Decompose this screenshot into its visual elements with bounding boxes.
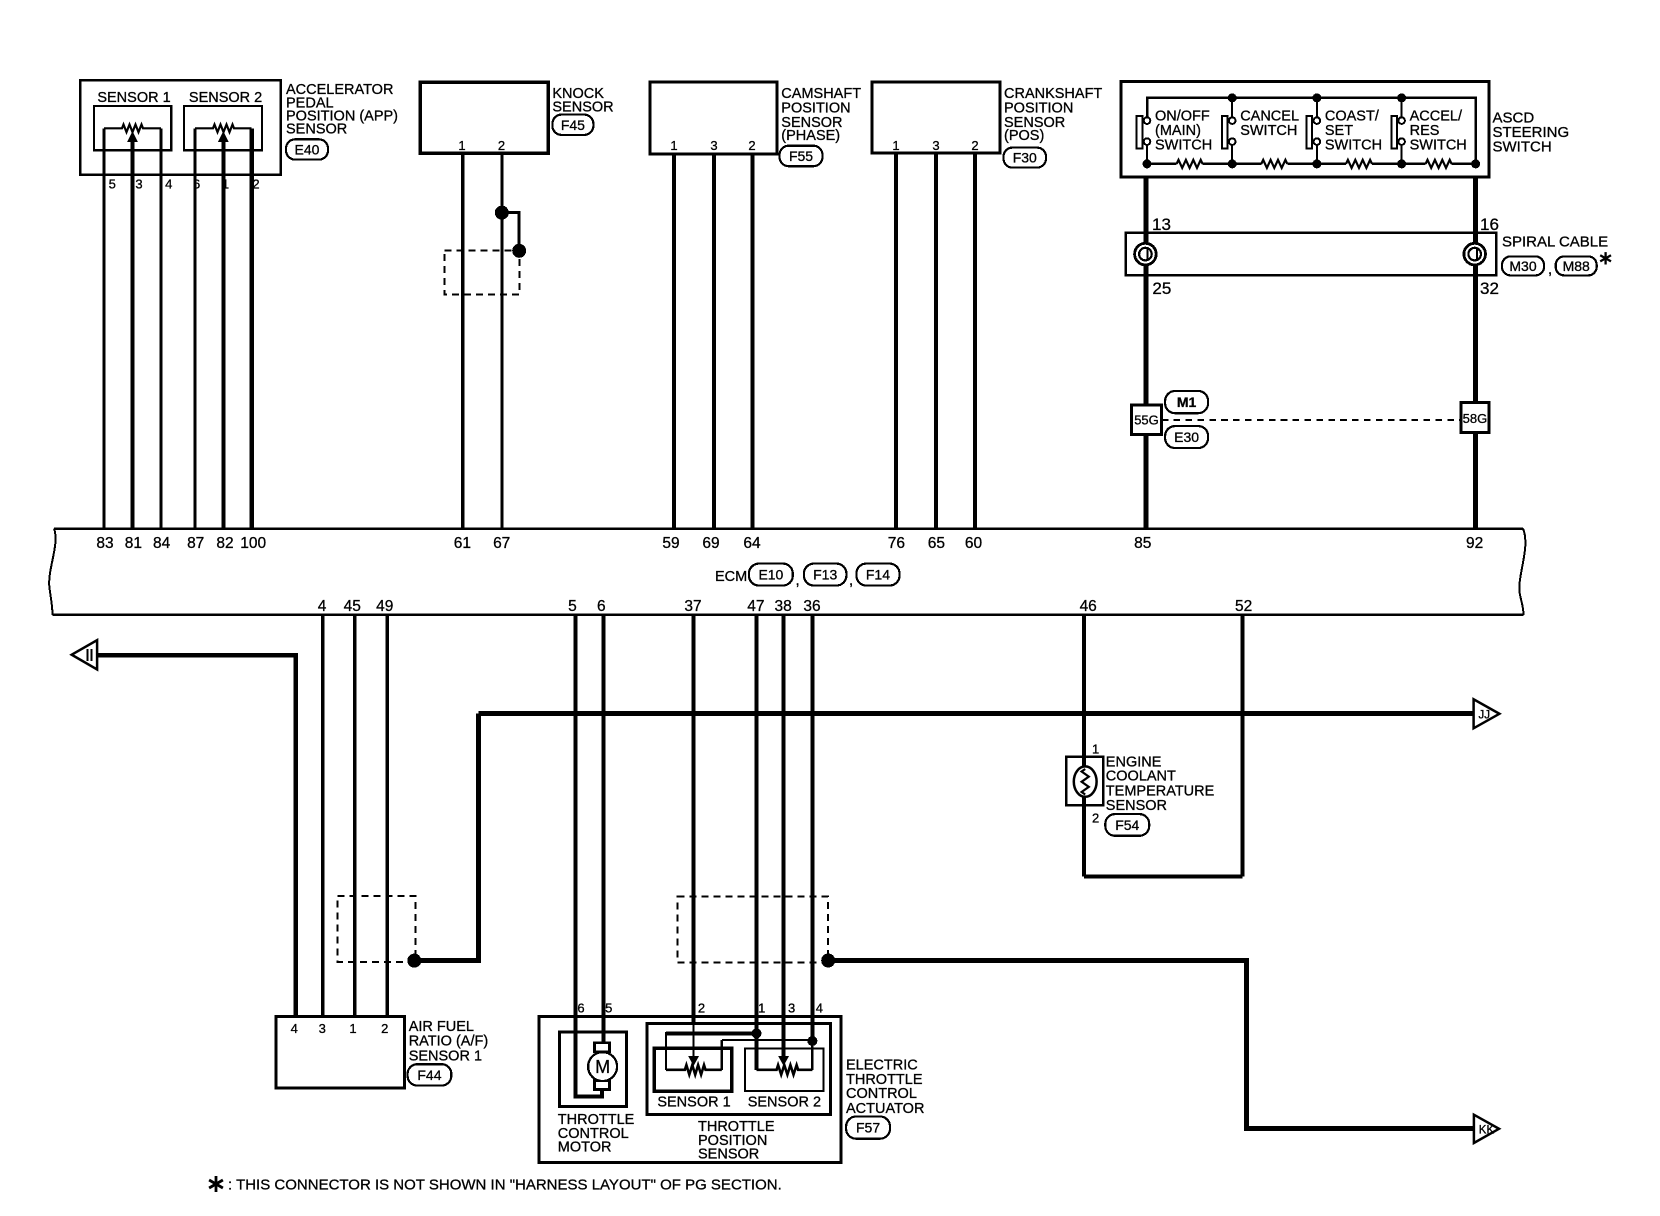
asterisk footnote mark near M88 xyxy=(1604,252,1606,264)
svg-text:47: 47 xyxy=(747,598,764,615)
junction dot bottom bus 5 xyxy=(1471,159,1480,168)
svg-text:61: 61 xyxy=(454,535,471,552)
wire ECM 45 to A/F pin 1 xyxy=(353,615,357,1017)
accelerator pedal position sensor E40 box xyxy=(80,80,281,175)
wire loop to ECM 52 xyxy=(1241,615,1245,876)
ECM band bottom line xyxy=(53,614,1524,617)
switch contact bottom circle COAST/ xyxy=(1314,138,1321,145)
svg-text:13: 13 xyxy=(1152,215,1171,234)
switch plate COAST/ xyxy=(1307,116,1313,149)
wire ECM 37 to TPS sensor1 wiper xyxy=(692,615,696,1024)
svg-text:4: 4 xyxy=(816,1001,823,1016)
svg-text:2: 2 xyxy=(1092,811,1099,826)
svg-text:38: 38 xyxy=(774,598,791,615)
svg-text:1: 1 xyxy=(670,138,677,153)
connector F30 xyxy=(1004,148,1047,168)
svg-text:84: 84 xyxy=(153,535,171,552)
svg-text:2: 2 xyxy=(498,138,505,153)
svg-text:87: 87 xyxy=(187,535,204,552)
wire crankshaft pin2 to ECM 60 xyxy=(973,153,977,529)
svg-text:SWITCH: SWITCH xyxy=(1325,138,1382,154)
switch contact top circle COAST/ xyxy=(1314,117,1321,124)
TPS sensor1 resistor xyxy=(666,1065,722,1075)
wire ECM 36 to TPS junction xyxy=(810,615,814,1041)
junction dot bottom bus 4 xyxy=(1397,159,1406,168)
wire ECM 49 to A/F pin 2 xyxy=(385,615,389,1017)
switch contact top circle ON/OFF xyxy=(1144,117,1151,124)
svg-text:32: 32 xyxy=(1480,279,1499,298)
junction dot bottom bus 2 xyxy=(1228,159,1237,168)
wire ASCD to spiral cable pin 16 xyxy=(1473,177,1478,528)
switch contact bottom circle ACCEL/ xyxy=(1398,138,1405,145)
wire APP pin6 to ECM 87 xyxy=(194,128,197,528)
svg-text:60: 60 xyxy=(965,535,983,552)
svg-text:76: 76 xyxy=(888,535,905,552)
wire camshaft pin3 to ECM 69 xyxy=(712,154,716,529)
spiral cable box xyxy=(1126,233,1496,276)
wire shield bus to page connector JJ xyxy=(479,711,1474,716)
svg-text:,: , xyxy=(849,572,853,589)
connector F57 xyxy=(846,1117,890,1139)
ECM band right torn edge xyxy=(1519,529,1525,615)
svg-text:3: 3 xyxy=(135,176,142,191)
connector E10 xyxy=(749,564,793,586)
ECT loop bottom wire xyxy=(1084,874,1242,878)
wire APP pin3 wiper to ECM 81 xyxy=(131,141,135,529)
svg-text:E10: E10 xyxy=(758,567,783,583)
TPS sensor2 resistor xyxy=(757,1065,813,1075)
connector E40 xyxy=(286,139,328,159)
svg-text:SENSOR: SENSOR xyxy=(698,1147,759,1163)
svg-text:3: 3 xyxy=(319,1021,326,1036)
throttle position sensor box xyxy=(647,1023,831,1114)
svg-text:,: , xyxy=(796,572,800,589)
page connector arrow JJ xyxy=(1474,699,1500,728)
svg-text:TEMPERATURE: TEMPERATURE xyxy=(1106,783,1215,799)
connector F55 xyxy=(780,146,823,167)
svg-text:AIR FUEL: AIR FUEL xyxy=(409,1019,474,1035)
switch contact top circle CANCEL xyxy=(1229,117,1236,124)
motor M circle xyxy=(588,1052,617,1081)
TPS sensor1 right terminal wire xyxy=(721,1040,723,1070)
svg-text:SWITCH: SWITCH xyxy=(1240,123,1297,139)
svg-text:49: 49 xyxy=(376,598,393,615)
ASCD accel/res switch top drop wire xyxy=(1401,98,1403,117)
svg-text:SENSOR: SENSOR xyxy=(1106,798,1167,814)
wire APP pin1 wiper to ECM 82 xyxy=(221,141,225,529)
TPS internal thick link wire xyxy=(666,1031,757,1035)
ECT thermistor symbol xyxy=(1074,766,1097,796)
wire APP pin5 to ECM 83 xyxy=(103,128,106,528)
switch contact bottom circle ON/OFF xyxy=(1144,138,1151,145)
svg-text:1: 1 xyxy=(349,1021,356,1036)
svg-text:F13: F13 xyxy=(813,567,837,583)
svg-text:SENSOR 1: SENSOR 1 xyxy=(409,1048,482,1064)
svg-text:2: 2 xyxy=(748,138,755,153)
svg-text:92: 92 xyxy=(1466,535,1483,552)
svg-text:E30: E30 xyxy=(1174,429,1199,445)
svg-text:(PHASE): (PHASE) xyxy=(781,128,840,144)
junction dot TPS pin1 xyxy=(752,1028,762,1038)
svg-text:F45: F45 xyxy=(561,117,585,133)
svg-text:4: 4 xyxy=(165,176,172,191)
svg-text:3: 3 xyxy=(710,138,717,153)
page connector arrow II xyxy=(72,640,97,669)
svg-text:4: 4 xyxy=(291,1021,298,1036)
splice 58G box xyxy=(1461,403,1489,433)
svg-text:1: 1 xyxy=(758,1001,765,1016)
motor brush bottom xyxy=(595,1081,610,1090)
ECM band left torn edge xyxy=(49,529,55,615)
TPS internal thin link wire xyxy=(722,1039,813,1041)
connector M30 xyxy=(1502,256,1544,275)
svg-text:,: , xyxy=(1548,261,1552,278)
svg-text:69: 69 xyxy=(702,535,719,552)
svg-text:SENSOR: SENSOR xyxy=(286,121,347,137)
switch bottom drop wire ACCEL/ xyxy=(1401,145,1403,164)
junction dot top bus accel/res xyxy=(1397,93,1406,102)
switch bottom drop wire ON/OFF xyxy=(1146,145,1148,164)
svg-text:SPIRAL CABLE: SPIRAL CABLE xyxy=(1502,233,1608,250)
switch bottom drop wire COAST/ xyxy=(1316,145,1318,164)
svg-text:SENSOR 1: SENSOR 1 xyxy=(97,90,170,106)
throttle control motor box xyxy=(559,1032,626,1107)
svg-text:SENSOR: SENSOR xyxy=(552,100,613,116)
svg-text:1: 1 xyxy=(458,138,465,153)
svg-text:3: 3 xyxy=(932,138,939,153)
svg-text:M88: M88 xyxy=(1563,258,1590,274)
wire knock pin1 to ECM 61 xyxy=(461,154,465,529)
junction dot top bus coast/set xyxy=(1312,93,1321,102)
svg-text:5: 5 xyxy=(605,1001,612,1016)
svg-text:82: 82 xyxy=(216,535,233,552)
svg-text:36: 36 xyxy=(803,598,820,615)
svg-text:5: 5 xyxy=(568,598,577,615)
A/F shield wire to bus xyxy=(414,714,478,961)
svg-text:F55: F55 xyxy=(789,148,813,164)
svg-text:F30: F30 xyxy=(1013,150,1037,166)
wire ECM area to A/F sensor pin 4 via page connector II xyxy=(97,655,295,1017)
wire ECM 47 to TPS junction xyxy=(755,615,759,1070)
TPS sensor 2 box xyxy=(745,1048,824,1091)
svg-text:KK: KK xyxy=(1479,1124,1495,1136)
wire ECM 38 to TPS sensor2 wiper xyxy=(782,615,786,1057)
camshaft position sensor F55 box xyxy=(650,82,777,154)
svg-text:F44: F44 xyxy=(417,1067,441,1083)
svg-text:55G: 55G xyxy=(1134,413,1159,428)
svg-text:SWITCH: SWITCH xyxy=(1155,138,1212,154)
svg-text:4: 4 xyxy=(318,598,327,615)
svg-text:16: 16 xyxy=(1480,215,1499,234)
switch plate CANCEL xyxy=(1222,116,1228,149)
svg-text:25: 25 xyxy=(1152,279,1171,298)
wire knock pin2 to ECM 67 xyxy=(500,154,503,529)
wire camshaft pin1 to ECM 59 xyxy=(672,154,676,529)
ASCD cancel switch top drop wire xyxy=(1231,98,1233,117)
svg-text:: THIS CONNECTOR IS NOT SHOWN: : THIS CONNECTOR IS NOT SHOWN IN "HARNES… xyxy=(228,1177,782,1194)
svg-text:83: 83 xyxy=(96,535,113,552)
motor brush top xyxy=(595,1043,610,1052)
svg-text:M30: M30 xyxy=(1509,258,1536,274)
knock shield branch wire xyxy=(502,213,519,251)
svg-text:2: 2 xyxy=(971,138,978,153)
APP sensor 1 inner box xyxy=(94,106,171,150)
svg-text:3: 3 xyxy=(788,1001,795,1016)
connector M88 xyxy=(1556,256,1597,275)
electric throttle control actuator F57 box xyxy=(539,1016,841,1162)
junction dot TPS pin4 xyxy=(807,1036,817,1046)
TPS sensor 1 box xyxy=(654,1048,732,1091)
svg-text:59: 59 xyxy=(662,535,679,552)
wire crankshaft pin1 to ECM 76 xyxy=(894,153,898,529)
wire ASCD to spiral cable pin 13 xyxy=(1144,177,1149,528)
spiral cable connector symbol right xyxy=(1464,243,1486,265)
knock sensor F45 box xyxy=(420,82,548,153)
svg-text:6: 6 xyxy=(577,1001,584,1016)
svg-text:45: 45 xyxy=(344,598,361,615)
svg-text:ECM: ECM xyxy=(715,569,747,585)
switch bottom drop wire CANCEL xyxy=(1231,145,1233,164)
svg-text:M: M xyxy=(595,1057,610,1077)
junction dot knock shield bottom xyxy=(512,244,526,258)
wire ECM 5 to throttle motor pin 6 xyxy=(575,615,602,1097)
potentiometer APP sensor 2 resistor xyxy=(195,125,252,133)
wire camshaft pin2 to ECM 64 xyxy=(750,154,754,529)
switch plate ON/OFF xyxy=(1137,116,1143,149)
knock shield dashed box xyxy=(444,250,519,294)
svg-text:64: 64 xyxy=(743,535,761,552)
page connector arrow KK xyxy=(1474,1115,1499,1143)
svg-text:52: 52 xyxy=(1235,598,1252,615)
svg-text:M1: M1 xyxy=(1177,394,1197,410)
svg-text:SWITCH: SWITCH xyxy=(1410,138,1467,154)
wire APP pin4 to ECM 84 xyxy=(160,128,163,528)
svg-text:58G: 58G xyxy=(1463,411,1488,426)
svg-text:46: 46 xyxy=(1080,598,1097,615)
svg-text:2: 2 xyxy=(381,1021,388,1036)
ASCD coast/set switch top drop wire xyxy=(1316,98,1318,117)
svg-text:6: 6 xyxy=(597,598,606,615)
svg-text:F54: F54 xyxy=(1115,817,1139,833)
connector M1 xyxy=(1165,391,1208,413)
svg-text:CONTROL: CONTROL xyxy=(846,1086,917,1102)
svg-text:E40: E40 xyxy=(295,141,320,157)
ECM band top line xyxy=(54,527,1523,530)
wire crankshaft pin3 to ECM 65 xyxy=(934,153,938,529)
splice 55G box xyxy=(1131,405,1161,434)
svg-text:37: 37 xyxy=(684,598,701,615)
svg-text:(POS): (POS) xyxy=(1004,128,1044,144)
svg-text:JJ: JJ xyxy=(1479,709,1491,721)
svg-text:MOTOR: MOTOR xyxy=(558,1140,612,1156)
wire ECM 6 to throttle motor pin 5 xyxy=(601,615,605,1043)
junction dot bottom bus 3 xyxy=(1312,159,1321,168)
crankshaft position sensor F30 box xyxy=(872,82,1000,153)
spiral cable connector symbol left xyxy=(1135,243,1157,265)
svg-text:100: 100 xyxy=(240,535,266,552)
ASCD bottom bus wire with resistors xyxy=(1147,163,1177,166)
connector F44 xyxy=(408,1064,452,1085)
potentiometer APP sensor 1 wiper arrow xyxy=(128,132,137,141)
svg-text:CRANKSHAFT: CRANKSHAFT xyxy=(1004,86,1102,102)
svg-text:SENSOR 1: SENSOR 1 xyxy=(657,1094,730,1110)
svg-text:RATIO (A/F): RATIO (A/F) xyxy=(409,1034,488,1050)
ASCD top bus wire xyxy=(1147,98,1476,164)
svg-text:CAMSHAFT: CAMSHAFT xyxy=(781,86,861,102)
TPS sensor2 wiper arrow xyxy=(779,1057,788,1065)
svg-text:F14: F14 xyxy=(866,567,890,583)
svg-text:67: 67 xyxy=(493,535,510,552)
ASCD steering switch box xyxy=(1121,81,1489,177)
A/F shield dashed box xyxy=(338,896,416,962)
ECT sensor box xyxy=(1066,757,1103,806)
TPS sensor1 left terminal wire xyxy=(665,1032,667,1070)
APP sensor 2 inner box xyxy=(184,106,262,150)
svg-text:65: 65 xyxy=(928,535,945,552)
switch plate ACCEL/ xyxy=(1391,116,1397,149)
svg-text:85: 85 xyxy=(1134,535,1151,552)
potentiometer APP sensor 1 resistor xyxy=(104,125,161,133)
switch contact bottom circle CANCEL xyxy=(1229,138,1236,145)
TPS sensor1 wiper arrow xyxy=(689,1057,698,1065)
air fuel ratio sensor F44 box xyxy=(276,1017,405,1089)
wire ECM 4 to A/F pin 3 xyxy=(321,615,325,1017)
svg-text:2: 2 xyxy=(698,1001,705,1016)
connector F45 xyxy=(552,115,593,135)
connector F14 xyxy=(856,564,899,586)
dashed link wire 55G to 58G xyxy=(1162,419,1461,421)
wire TPS shield to page connector KK xyxy=(828,961,1474,1129)
junction dot TPS shield xyxy=(821,954,835,968)
footnote asterisk xyxy=(215,1176,218,1192)
svg-text:SWITCH: SWITCH xyxy=(1493,138,1552,155)
junction dot top bus cancel xyxy=(1228,93,1237,102)
TPS shield dashed box xyxy=(678,897,829,963)
potentiometer APP sensor 2 wiper arrow xyxy=(219,132,228,141)
svg-text:SENSOR 2: SENSOR 2 xyxy=(189,90,262,106)
svg-text:1: 1 xyxy=(892,138,899,153)
svg-text:COOLANT: COOLANT xyxy=(1106,768,1176,784)
connector E30 xyxy=(1165,426,1208,448)
svg-text:F57: F57 xyxy=(856,1120,880,1136)
junction dot knock shield top xyxy=(495,206,509,220)
svg-text:5: 5 xyxy=(109,176,116,191)
switch contact top circle ACCEL/ xyxy=(1398,117,1405,124)
svg-text:ACTUATOR: ACTUATOR xyxy=(846,1101,924,1117)
connector F13 xyxy=(804,564,846,586)
svg-text:1: 1 xyxy=(1092,742,1099,757)
connector F54 xyxy=(1105,814,1149,836)
wire APP pin2 to ECM 100 xyxy=(249,128,254,528)
wire ECT sensor to loop bottom xyxy=(1082,797,1086,877)
svg-text:SENSOR 2: SENSOR 2 xyxy=(748,1094,821,1110)
TPS sensor2 right terminal wire xyxy=(811,1041,814,1070)
junction dot A/F shield xyxy=(407,954,421,968)
junction dot bottom bus 1 xyxy=(1143,159,1152,168)
svg-text:81: 81 xyxy=(125,535,142,552)
wire ECM 46 to ECT sensor xyxy=(1082,615,1086,766)
